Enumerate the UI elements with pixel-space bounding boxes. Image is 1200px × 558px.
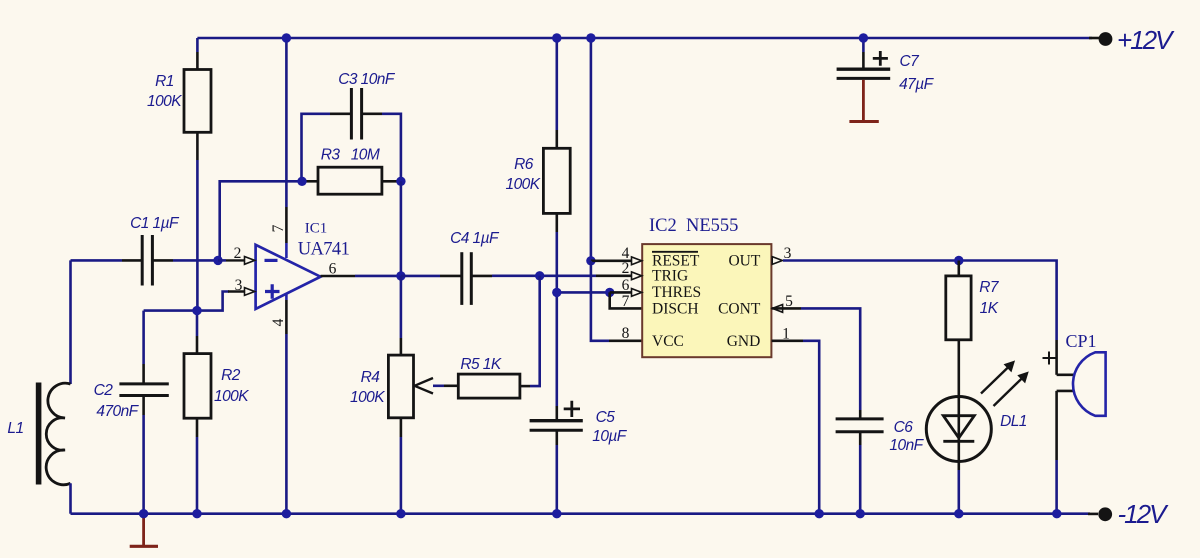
wire pin3 net	[144, 292, 229, 311]
svg-text:2: 2	[234, 245, 242, 262]
op-amp pin2 arrowhead	[245, 257, 255, 265]
wire feedback to pin2	[220, 181, 302, 260]
resistor R6	[506, 38, 571, 292]
svg-text:470nF: 470nF	[96, 403, 139, 420]
svg-text:R6: R6	[514, 156, 534, 173]
capacitor C7	[837, 38, 935, 93]
svg-text:8: 8	[622, 325, 630, 342]
svg-text:6: 6	[622, 277, 630, 294]
resistor R1	[147, 38, 211, 160]
power C7 ground stub	[862, 80, 865, 121]
svg-text:R1: R1	[155, 73, 174, 90]
svg-text:10nF: 10nF	[889, 437, 924, 454]
node junction pin2/C1	[213, 256, 222, 265]
resistor R3	[302, 147, 401, 195]
svg-text:DISCH: DISCH	[652, 300, 699, 317]
svg-text:C5: C5	[596, 409, 616, 426]
svg-text:100K: 100K	[147, 93, 182, 110]
pin arrow THRES	[632, 289, 642, 297]
svg-text:C7: C7	[899, 53, 920, 70]
svg-text:C1 1µF: C1 1µF	[130, 215, 180, 232]
svg-text:C4 1µF: C4 1µF	[450, 230, 500, 247]
svg-text:CONT: CONT	[718, 300, 761, 317]
svg-text:-12V: -12V	[1118, 499, 1170, 529]
node junction OUT/R7	[954, 256, 963, 265]
node junction C7 top	[859, 33, 868, 42]
pin arrow RESET	[632, 257, 642, 265]
node -12V terminal	[1098, 507, 1112, 521]
potentiometer R4	[350, 276, 433, 514]
op-amp U1 pin7 lead	[285, 38, 288, 207]
svg-text:TRIG: TRIG	[652, 267, 688, 284]
node junction TRIG/R5	[535, 271, 544, 280]
svg-text:VCC: VCC	[652, 333, 684, 350]
pin arrow OUT	[772, 257, 782, 265]
capacitor C5	[530, 401, 628, 514]
node junction output	[396, 271, 405, 280]
op-amp U1 pin4 lead	[285, 294, 288, 300]
wire GND net	[772, 339, 803, 342]
svg-text:R2: R2	[221, 367, 241, 384]
svg-text:R7: R7	[979, 279, 1000, 296]
wire THRES stub	[610, 291, 633, 294]
node junction pin3/R1/R2	[192, 306, 201, 315]
svg-text:UA741: UA741	[298, 240, 350, 260]
wire op-amp output	[321, 275, 356, 278]
op-amp pin3 arrowhead	[245, 288, 255, 296]
op-amp IC1 UA741	[256, 220, 350, 309]
wire DISCH jog	[610, 292, 643, 308]
svg-text:R5 1K: R5 1K	[460, 356, 502, 373]
svg-text:IC1: IC1	[305, 220, 328, 236]
speaker CP1	[1043, 331, 1106, 514]
svg-text:100K: 100K	[350, 389, 385, 406]
wire CONT net	[772, 307, 783, 310]
svg-text:THRES: THRES	[652, 284, 701, 301]
svg-text:10µF: 10µF	[592, 428, 628, 445]
pin arrow CONT	[772, 305, 782, 313]
resistor R5	[433, 276, 540, 398]
wire bottom -12V rail	[71, 512, 1091, 515]
node junction feedback left	[297, 177, 306, 186]
node +12V terminal	[1099, 32, 1113, 46]
wire top +12V rail	[197, 37, 1092, 40]
pin arrow TRIG	[632, 272, 642, 280]
wire feedback right to output	[400, 181, 403, 276]
svg-text:7: 7	[622, 293, 630, 310]
svg-text:R3 10M: R3 10M	[321, 147, 380, 164]
wire OUT net	[783, 261, 1057, 341]
capacitor C6	[836, 410, 925, 514]
wire R6 to C5	[555, 292, 558, 406]
node junction THRES right	[605, 288, 614, 297]
svg-text:C6: C6	[894, 419, 914, 436]
svg-text:3: 3	[235, 277, 243, 294]
capacitor C1	[71, 215, 219, 286]
wire THRES net	[557, 291, 610, 294]
node junction feedback right	[396, 177, 405, 186]
wire R1 bottom to pin3 net	[196, 160, 199, 311]
resistor R2	[184, 311, 249, 514]
svg-text:+12V: +12V	[1117, 25, 1175, 55]
node junction RESET	[586, 256, 595, 265]
svg-text:CP1: CP1	[1066, 331, 1097, 351]
svg-text:7: 7	[270, 224, 287, 232]
ground symbol	[142, 514, 145, 545]
node junction THRES left	[552, 288, 561, 297]
resistor R7	[946, 261, 1000, 397]
capacitor C4	[401, 230, 540, 305]
svg-text:IC2 NE555: IC2 NE555	[649, 216, 738, 236]
svg-text:2: 2	[622, 260, 630, 277]
wire TRIG net	[540, 274, 596, 277]
svg-text:4: 4	[270, 318, 287, 326]
wire VCC net	[591, 261, 609, 341]
svg-text:C2: C2	[94, 382, 114, 399]
wire RESET stub	[591, 259, 633, 262]
wire bottom rail black stub	[1088, 513, 1098, 516]
LED DL1	[926, 361, 1028, 514]
wire RESET vertical	[590, 38, 593, 261]
svg-text:OUT: OUT	[728, 253, 760, 270]
svg-text:1K: 1K	[980, 300, 999, 317]
IC2 NE555 body	[642, 216, 771, 357]
wire top rail black stub	[1089, 37, 1099, 40]
svg-text:C3 10nF: C3 10nF	[338, 71, 396, 88]
svg-text:L1: L1	[7, 420, 23, 437]
capacitor C3	[302, 71, 401, 181]
svg-text:DL1: DL1	[1000, 413, 1027, 430]
node dots bottom rail	[139, 509, 148, 518]
svg-text:100K: 100K	[214, 388, 249, 405]
svg-text:R4: R4	[361, 369, 381, 386]
svg-text:GND: GND	[727, 333, 761, 350]
node dots top rail	[282, 33, 291, 42]
svg-text:47µF: 47µF	[899, 76, 935, 93]
inductor L1	[7, 260, 70, 513]
svg-text:100K: 100K	[506, 176, 541, 193]
wire pin2 stub	[218, 259, 226, 262]
capacitor C2	[94, 311, 169, 514]
